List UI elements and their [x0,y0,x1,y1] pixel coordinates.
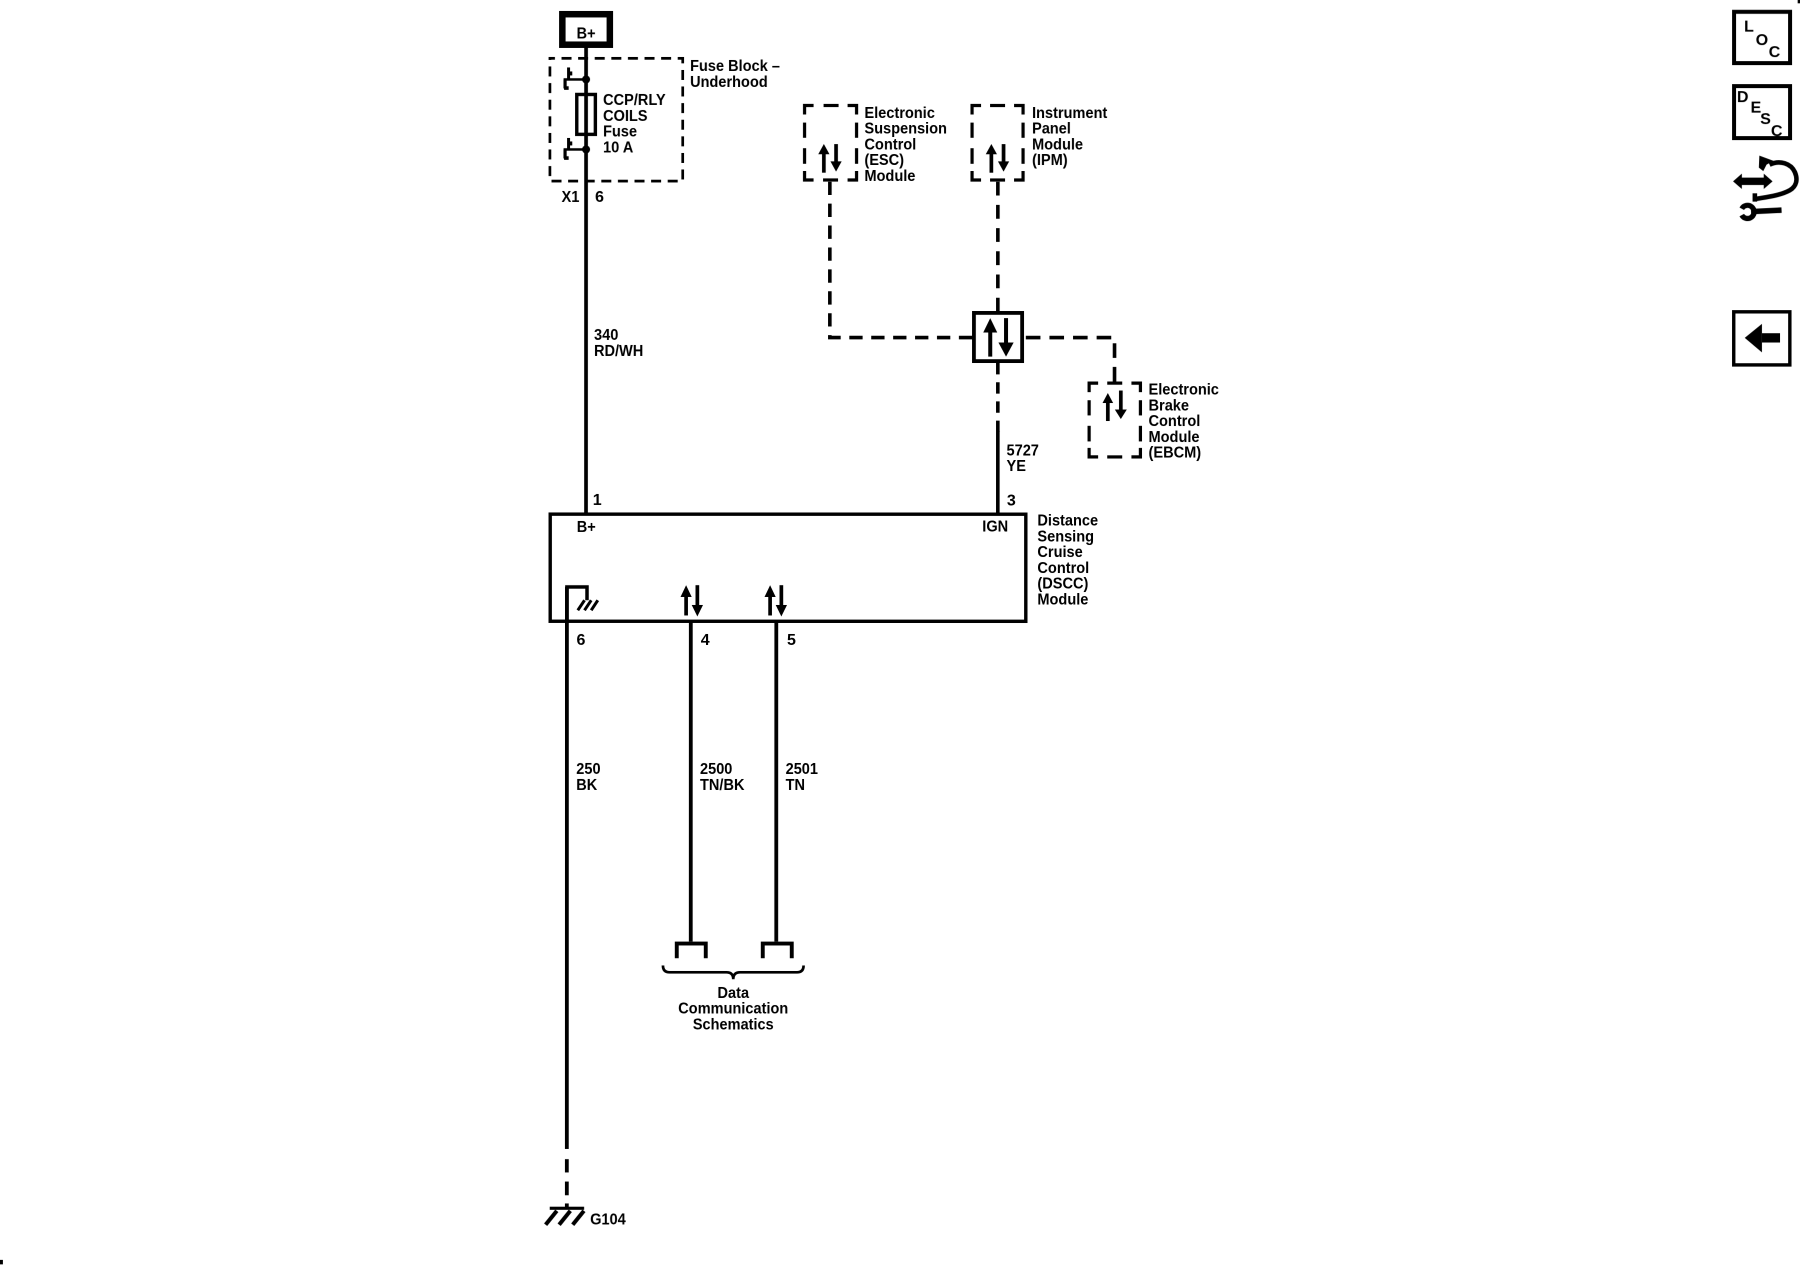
wire 340 RD/WH from B+ through fuse to DSCC pin 1 [584,48,588,514]
svg-text:6: 6 [595,189,604,206]
svg-text:1: 1 [593,492,602,509]
svg-text:Underhood: Underhood [690,74,768,91]
svg-text:2501: 2501 [786,761,818,778]
svg-text:S: S [1760,111,1771,128]
wire 2500 TN/BK from DSCC pin 4 [689,622,693,942]
ground G104 symbol [546,1208,585,1225]
svg-text:YE: YE [1007,458,1027,475]
EBCM module dashed box [1089,383,1140,457]
wire 5727 YE solid segment to DSCC pin 3 [996,431,1000,514]
svg-text:G104: G104 [590,1211,626,1228]
gateway down arrow [998,318,1013,357]
label Electronic Brake Control Module (EBCM) [1149,382,1220,462]
label Electronic Suspension Control (ESC) Module [864,105,947,185]
svg-text:Brake: Brake [1149,397,1190,414]
label Distance Sensing Cruise Control (DSCC) Module [1037,513,1098,609]
label Fuse Block - Underhood [690,58,780,91]
svg-text:5727: 5727 [1007,442,1039,459]
svg-text:BK: BK [576,777,597,794]
svg-text:10 A: 10 A [603,139,634,156]
svg-text:(EBCM): (EBCM) [1149,445,1202,462]
svg-text:C: C [1769,44,1781,61]
data link gateway box [974,313,1022,361]
ESC module dashed box [805,105,857,180]
svg-text:Module: Module [1149,429,1200,446]
svg-text:C: C [1771,123,1783,140]
svg-text:Panel: Panel [1032,121,1071,138]
dashed wire IPM module to gateway box [996,182,1000,312]
EBCM internal data symbol down arrow [1115,391,1127,420]
svg-text:Electronic: Electronic [864,105,934,122]
svg-text:Instrument: Instrument [1032,105,1108,122]
EBCM internal data symbol up arrow [1103,393,1114,421]
label wire 250 BK [576,761,600,794]
sidebar diagnostic icon wrench [1742,205,1782,218]
svg-text:L: L [1744,19,1754,36]
ESC internal data symbol up arrow [818,144,829,173]
label fuse value CCP/RLY COILS Fuse 10 A [603,92,666,156]
wire 250 BK from DSCC pin 6 [565,587,569,1149]
DSCC pin 4 data symbol up arrow [681,585,692,615]
svg-text:Schematics: Schematics [693,1016,774,1033]
dashed wire ESC module to gateway box [830,182,972,338]
junction dot bottom clip to wire [582,145,590,153]
DSCC pin 5 data symbol down arrow [776,585,787,616]
svg-text:Suspension: Suspension [864,120,947,137]
power feed B+ box [559,11,613,48]
page artifact top-right corner mark [1798,0,1800,3]
brace Data Communication Schematics [663,965,804,979]
svg-text:(IPM): (IPM) [1032,152,1068,169]
svg-text:Control: Control [1149,413,1201,430]
wire 2501 TN from DSCC pin 5 [774,622,778,942]
svg-text:Fuse Block –: Fuse Block – [690,58,780,75]
svg-text:6: 6 [576,632,585,649]
svg-text:Electronic: Electronic [1149,382,1219,399]
svg-text:Module: Module [1032,136,1083,153]
sidebar diagnostic icon curved arrow [1755,162,1797,201]
svg-text:5: 5 [787,632,796,649]
svg-text:Cruise: Cruise [1037,544,1082,561]
dashed wire gateway down toward DSCC pin 3 [996,363,1000,432]
label Instrument Panel Module (IPM) [1032,105,1108,169]
IPM internal data symbol down arrow [998,144,1009,172]
svg-text:340: 340 [594,327,618,344]
internal ground symbol in DSCC [567,587,598,621]
svg-text:4: 4 [701,632,710,649]
svg-text:3: 3 [1007,492,1016,509]
label wire 340 RD/WH [594,327,643,360]
fuse CCP/RLY COILS body [577,94,596,134]
svg-text:B+: B+ [577,25,596,42]
dashed wire 250 BK to ground [565,1159,569,1208]
label wire 2501 TN [786,761,818,794]
DSCC pin 4 data symbol down arrow [692,585,703,616]
svg-text:Data: Data [717,985,749,1002]
svg-text:(ESC): (ESC) [864,152,904,169]
sidebar DESC button [1734,86,1790,140]
svg-text:TN: TN [786,777,805,794]
junction dot top clip to wire [582,75,590,83]
off-page connector pin 5 [763,944,792,959]
fuse block underhood dashed box [550,58,683,181]
svg-text:COILS: COILS [603,108,648,125]
label wire 5727 YE [1007,442,1039,475]
sidebar LOC button [1734,12,1790,63]
svg-text:CCP/RLY: CCP/RLY [603,92,666,109]
svg-text:O: O [1756,32,1768,49]
svg-text:Communication: Communication [678,1001,788,1018]
DSCC module box [550,514,1026,621]
label Data Communication Schematics [678,985,788,1034]
page artifact bottom-left dot [0,1260,3,1265]
svg-text:2500: 2500 [700,761,732,778]
svg-text:RD/WH: RD/WH [594,343,643,360]
ESC internal data symbol down arrow [830,144,841,172]
svg-text:B+: B+ [577,519,596,536]
sidebar back arrow button [1734,312,1790,365]
gateway up arrow [983,318,997,357]
svg-text:IGN: IGN [982,518,1008,535]
svg-text:Control: Control [1037,560,1089,577]
svg-text:Control: Control [864,136,916,153]
fuse clip bottom terminal [564,138,587,160]
label wire 2500 TN/BK [700,761,745,794]
svg-text:TN/BK: TN/BK [700,777,745,794]
svg-text:250: 250 [576,761,600,778]
svg-text:Distance: Distance [1037,513,1098,530]
svg-text:Sensing: Sensing [1037,528,1094,545]
svg-text:(DSCC): (DSCC) [1037,576,1088,593]
svg-text:Module: Module [864,168,915,185]
off-page connector pin 4 [677,944,706,959]
svg-text:Fuse: Fuse [603,123,637,140]
IPM internal data symbol up arrow [986,144,997,173]
svg-text:X1: X1 [562,189,580,206]
DSCC pin 5 data symbol up arrow [765,585,776,615]
fuse clip top terminal [564,67,587,89]
dashed wire gateway to EBCM module [1026,338,1115,382]
IPM module dashed box [972,106,1023,181]
svg-text:D: D [1737,89,1749,106]
svg-text:Module: Module [1037,591,1088,608]
sidebar diagnostic icon double arrow [1733,174,1773,189]
